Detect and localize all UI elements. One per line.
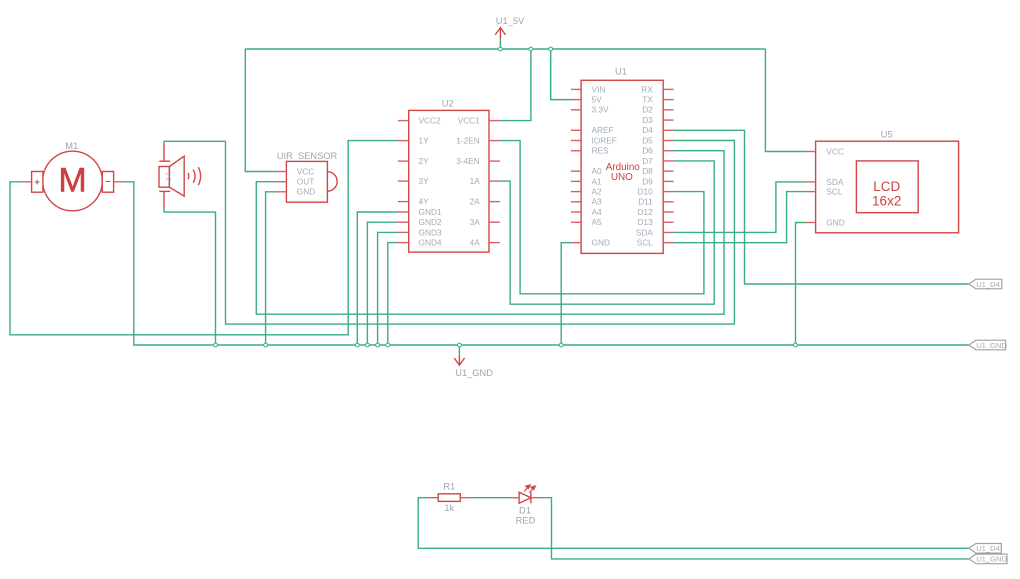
svg-text:RED: RED: [516, 515, 536, 525]
IC U2 box: [409, 110, 489, 252]
svg-text:U1_D4: U1_D4: [976, 280, 1000, 289]
U1 right pin stub D3: [663, 119, 673, 121]
svg-text:U1_GND: U1_GND: [455, 368, 493, 378]
wire net U1_GND branch U2 GND3: [378, 232, 398, 345]
U1 left pin stub A1: [571, 180, 581, 182]
svg-text:UNO: UNO: [611, 172, 633, 183]
wire net U1 SDA to U5 SDA: [674, 182, 806, 233]
svg-text:M1: M1: [65, 141, 78, 151]
U2 left pin stub 2Y: [398, 160, 409, 162]
svg-text:16x2: 16x2: [872, 194, 901, 209]
U1 left pin stub VIN: [571, 88, 581, 90]
junction on U1_GND bus at GND2: [366, 343, 370, 347]
IC U1 box: [581, 80, 663, 253]
svg-text:A3: A3: [592, 197, 603, 207]
UIR_SENSOR pin stub OUT: [276, 181, 287, 183]
wire net U2 1A to U1 D7: [500, 161, 714, 304]
U5 display inner box: [856, 161, 918, 213]
svg-text:GND2: GND2: [419, 217, 442, 227]
U1 left pin stub RES: [571, 150, 581, 152]
svg-text:1k: 1k: [444, 503, 454, 513]
svg-text:R1: R1: [443, 482, 455, 492]
svg-text:1Y: 1Y: [419, 136, 430, 146]
U2 left pin stub 1Y: [398, 140, 409, 142]
U1 left pin stub A5: [571, 221, 581, 223]
U1 right pin stub SDA: [663, 231, 673, 233]
svg-text:U2: U2: [442, 99, 454, 109]
module UIR_SENSOR box: [286, 161, 327, 202]
wire net U1_GND branch U2 GND4: [388, 243, 398, 345]
net flag U1_GND right: [969, 340, 1007, 350]
U1 left pin stub A2: [571, 191, 581, 193]
svg-text:SDA: SDA: [636, 227, 654, 237]
U1 right pin stub D12: [663, 211, 673, 213]
junction on U1_GND bus at ground arrow: [458, 343, 462, 347]
speaker top terminal tick: [159, 160, 170, 162]
svg-text:D4: D4: [642, 125, 653, 135]
resistor R1 left stub: [429, 497, 439, 499]
svg-text:GND4: GND4: [419, 238, 442, 248]
U1 right pin stub TX: [663, 99, 673, 101]
svg-text:RX: RX: [641, 84, 653, 94]
speaker sound arcs: [188, 167, 201, 185]
svg-text:VCC2: VCC2: [419, 116, 442, 126]
U2 right pin stub VCC1: [489, 120, 500, 122]
svg-text:GND3: GND3: [419, 227, 442, 237]
U1 left pin stub A0: [571, 170, 581, 172]
svg-text:4A: 4A: [470, 238, 481, 248]
svg-text:VCC1: VCC1: [458, 116, 481, 126]
svg-text:RES: RES: [592, 146, 610, 156]
svg-text:AREF: AREF: [592, 125, 614, 135]
motor M1 circle: [43, 151, 103, 211]
wire net speaker plus to U1 D5: [164, 141, 734, 325]
svg-text:GND: GND: [592, 238, 610, 248]
UIR_SENSOR pin stub VCC: [276, 171, 287, 173]
ground arrow U1_GND: [454, 356, 464, 365]
svg-text:3Y: 3Y: [419, 176, 430, 186]
net flag U1_GND bottom: [969, 554, 1007, 564]
svg-text:IOREF: IOREF: [592, 135, 617, 145]
U5 pin stub GND: [806, 222, 816, 224]
U1 left pin stub 3.3V: [571, 109, 581, 111]
U2 left pin stub GND4: [398, 242, 409, 244]
U1 right pin stub D6: [663, 150, 673, 152]
svg-text:U1_D4: U1_D4: [976, 544, 1000, 553]
svg-text:−: −: [105, 177, 111, 188]
U1 right pin stub SCL: [663, 242, 673, 244]
speaker cone: [169, 156, 184, 196]
svg-text:2A: 2A: [470, 197, 481, 207]
U2 left pin stub VCC2: [398, 120, 409, 122]
U1 left pin stub A3: [571, 201, 581, 203]
junction on U1_GND bus at GND3: [376, 343, 380, 347]
svg-text:A2: A2: [592, 187, 603, 197]
speaker top pin wire: [163, 144, 165, 162]
svg-text:A4: A4: [592, 207, 603, 217]
svg-text:D8: D8: [642, 166, 653, 176]
svg-text:SCL: SCL: [637, 238, 654, 248]
svg-text:A5: A5: [592, 217, 603, 227]
wire net U1_5V branch to U2 VCC1: [500, 49, 531, 121]
LED D1 triangle: [519, 492, 531, 503]
motor M1 left pin stub: [23, 181, 32, 183]
U5 pin stub SCL: [806, 191, 816, 193]
junction on U1_GND bus at GND4: [386, 343, 390, 347]
U2 right pin stub 3-4EN: [489, 160, 500, 162]
wire net U1_5V branch to UIR_SENSOR VCC: [245, 49, 275, 172]
wire net UIR_SENSOR OUT to U1 D6: [256, 151, 724, 314]
junction on U1_GND bus at GND1: [355, 343, 359, 347]
svg-text:+: +: [34, 177, 40, 188]
svg-text:U1: U1: [615, 67, 627, 77]
U1 right pin stub D9: [663, 180, 673, 182]
wire net U1_5V main horizontal: [245, 48, 765, 50]
wire net U1 D4 to flag U1_D4: [674, 130, 969, 284]
wire net U1 SCL to U5 SCL: [674, 192, 806, 243]
U1 right pin stub D10: [663, 191, 673, 193]
wire net U1_5V branch to U5 VCC: [765, 49, 805, 152]
svg-text:A0: A0: [592, 166, 603, 176]
svg-text:3-4EN: 3-4EN: [456, 156, 480, 166]
junction on U1_5V at U1 5V branch: [549, 47, 553, 51]
svg-text:SCL: SCL: [826, 187, 843, 197]
LED D1 left stub: [511, 497, 519, 499]
U5 pin stub SDA: [806, 181, 816, 183]
svg-text:D10: D10: [638, 187, 654, 197]
svg-text:D12: D12: [638, 207, 654, 217]
wire net U1_GND branch speaker bottom: [164, 207, 216, 345]
svg-text:U5: U5: [881, 129, 893, 139]
motor M1 right pin stub: [114, 181, 123, 183]
wire net U1_5V branch to U1 5V pin: [551, 49, 571, 100]
svg-text:GND1: GND1: [419, 207, 442, 217]
wire net U1_GND stem to ground arrow: [458, 345, 460, 356]
wire net U1_GND bus from motor minus to flag: [123, 182, 969, 345]
svg-text:TX: TX: [642, 95, 653, 105]
svg-text:GND: GND: [826, 217, 844, 227]
U1 left pin stub AREF: [571, 129, 581, 131]
U1 right pin stub D13: [663, 221, 673, 223]
U1 right pin stub RX: [663, 88, 673, 90]
svg-text:D1: D1: [519, 506, 531, 516]
net flag U1_D4 right: [969, 279, 1002, 289]
U2 right pin stub 1A: [489, 180, 500, 182]
svg-text:D13: D13: [638, 217, 654, 227]
module UIR_SENSOR bump: [327, 172, 337, 192]
junction on U1_5V at U2 VCC1 branch: [529, 47, 533, 51]
svg-text:1-2EN: 1-2EN: [456, 136, 480, 146]
wire net U1_5V stem to supply arrow: [499, 39, 501, 50]
speaker bottom terminal tick: [159, 190, 170, 192]
U1 left pin stub A4: [571, 211, 581, 213]
U1 left pin stub IOREF: [571, 140, 581, 142]
U2 left pin stub 3Y: [398, 180, 409, 182]
U2 left pin stub GND3: [398, 231, 409, 233]
svg-text:4Y: 4Y: [419, 197, 430, 207]
wire bottom net between R1 and LED D1: [470, 497, 512, 499]
svg-text:VCC: VCC: [297, 166, 315, 176]
svg-text:U1_GND: U1_GND: [976, 555, 1007, 564]
LED D1 emission arrows: [524, 485, 535, 493]
svg-text:3.3V: 3.3V: [592, 105, 610, 115]
svg-text:LCD: LCD: [873, 179, 900, 194]
wire net U1_GND branch U1 GND pin: [561, 243, 571, 345]
LED D1 right stub: [531, 497, 541, 499]
module U5 box: [816, 141, 959, 233]
UIR_SENSOR pin stub GND: [276, 191, 287, 193]
wire net U2 1-2EN to U1 D10: [500, 141, 704, 294]
U5 pin stub VCC: [806, 151, 816, 153]
speaker bottom pin wire: [163, 191, 165, 207]
svg-text:SDA: SDA: [826, 177, 844, 187]
junction on U1_GND bus at UIR GND: [264, 343, 268, 347]
svg-text:D11: D11: [638, 197, 653, 207]
motor M1 right terminal box: [102, 172, 113, 193]
svg-text:2Y: 2Y: [419, 156, 430, 166]
U2 left pin stub GND2: [398, 221, 409, 223]
svg-text:U1_5V: U1_5V: [496, 16, 525, 26]
junction on U1_GND bus at U5 GND: [794, 343, 798, 347]
motor M1 left terminal box: [32, 172, 43, 193]
wire net U1_GND branch U2 GND1: [357, 212, 398, 345]
wire net U1_GND branch U5 GND: [796, 223, 806, 346]
U1 right pin stub D8: [663, 170, 673, 172]
U2 right pin stub 4A: [489, 242, 500, 244]
net flag U1_D4 bottom: [969, 544, 1001, 554]
wire bottom net U1_D4 to resistor R1: [418, 498, 969, 549]
svg-text:UIR_SENSOR: UIR_SENSOR: [277, 151, 338, 161]
svg-text:M: M: [58, 162, 86, 200]
wire net U1_GND branch U2 GND2: [367, 222, 397, 345]
U1 left pin stub GND: [571, 242, 581, 244]
U1 right pin stub D5: [663, 140, 673, 142]
svg-text:1 2: 1 2: [164, 172, 171, 182]
wire net U1_GND branch UIR_SENSOR GND: [266, 192, 276, 345]
U2 right pin stub 2A: [489, 201, 500, 203]
U1 right pin stub D2: [663, 109, 673, 111]
junction on U1_GND bus at U1 GND: [559, 343, 563, 347]
U1 left pin stub 5V: [571, 99, 581, 101]
wire bottom net LED D1 cathode to flag U1_GND: [541, 498, 969, 559]
speaker body rectangle: [159, 167, 169, 188]
svg-text:5V: 5V: [592, 95, 603, 105]
svg-text:D9: D9: [642, 176, 653, 186]
U1 right pin stub D11: [663, 201, 673, 203]
U2 left pin stub 4Y: [398, 201, 409, 203]
svg-text:D6: D6: [642, 146, 653, 156]
svg-text:OUT: OUT: [297, 177, 315, 187]
junction on U1_GND bus at speaker: [214, 343, 218, 347]
U2 left pin stub GND1: [398, 211, 409, 213]
U1 right pin stub D4: [663, 129, 673, 131]
svg-text:VIN: VIN: [592, 84, 606, 94]
svg-text:A1: A1: [592, 176, 603, 186]
svg-text:D3: D3: [642, 115, 653, 125]
svg-text:D7: D7: [642, 156, 653, 166]
LED D1 cathode bar: [530, 492, 532, 503]
U1 right pin stub D7: [663, 160, 673, 162]
svg-text:D5: D5: [642, 135, 653, 145]
svg-text:D2: D2: [642, 105, 653, 115]
svg-text:U1_GND: U1_GND: [976, 341, 1007, 350]
wire net motor plus to U2 1Y: [10, 141, 398, 335]
svg-text:GND: GND: [297, 187, 315, 197]
supply arrow U1_5V: [495, 28, 505, 39]
resistor R1 right stub: [460, 497, 469, 499]
svg-text:1A: 1A: [470, 176, 481, 186]
svg-text:3A: 3A: [470, 217, 481, 227]
U2 right pin stub 3A: [489, 221, 500, 223]
junction on U1_5V at supply arrow: [499, 47, 503, 51]
svg-text:VCC: VCC: [826, 146, 844, 156]
U2 right pin stub 1-2EN: [489, 140, 500, 142]
resistor R1 body: [438, 494, 460, 502]
